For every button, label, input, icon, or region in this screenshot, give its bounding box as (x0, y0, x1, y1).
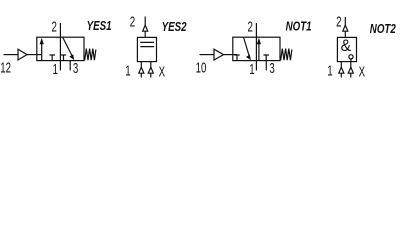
svg-text:NOT2: NOT2 (370, 23, 397, 37)
port label 1 NOT1 (249, 61, 255, 77)
port X stub NOT2 with flow triangle (350, 62, 352, 68)
port label 2 NOT1 (248, 18, 254, 34)
svg-text:X: X (159, 64, 165, 80)
valve NOT1 left-cell flow diagonal 2->3 (244, 38, 250, 56)
port 1 stub YES2 with flow triangle (140, 62, 142, 68)
port 3 stub YES1 (69, 61, 71, 71)
port 1 stub NOT2 with flow triangle (340, 62, 342, 68)
valve NOT1 left-cell blocked port T (234, 55, 239, 61)
svg-text:1: 1 (249, 61, 255, 77)
port label 3 NOT1 (269, 60, 275, 76)
port label X NOT2 (359, 64, 365, 80)
port label 2 YES2 (130, 13, 136, 29)
NOT2 inhibition circle (349, 55, 353, 59)
svg-text:2: 2 (52, 18, 58, 34)
valve NOT1 right-cell flow arrow 1->2 (258, 43, 260, 61)
svg-text:3: 3 (73, 60, 79, 76)
svg-text:2: 2 (130, 13, 136, 29)
spring NOT1 (280, 49, 292, 61)
label YES1 (87, 20, 112, 34)
svg-text:1: 1 (125, 62, 131, 78)
spring YES1 (84, 49, 96, 61)
port 1 stub YES1 (59, 61, 61, 71)
port label 3 YES1 (73, 60, 79, 76)
port 2 stub YES2 with flow triangle (144, 17, 146, 26)
svg-text:2: 2 (248, 18, 254, 34)
port X stub YES2 with flow triangle (150, 62, 152, 68)
svg-text:10: 10 (196, 60, 207, 76)
svg-text:NOT1: NOT1 (286, 20, 312, 34)
port label X YES2 (159, 64, 165, 80)
svg-text:12: 12 (0, 60, 11, 76)
port 2 stub NOT2 with flow triangle (344, 17, 346, 26)
valve NOT1 body (233, 37, 280, 60)
port label 1 YES2 (125, 62, 131, 78)
port 1 stub NOT1 (255, 61, 257, 71)
valve YES1 right-cell blocked port T (61, 55, 66, 61)
amplifier triangle NOT1 input (214, 49, 224, 60)
svg-text:1: 1 (53, 61, 59, 77)
wire pilot line into YES1 (27, 54, 42, 56)
label YES2 (162, 21, 187, 35)
label NOT1 (286, 20, 312, 34)
valve NOT1 right-cell blocked port T (264, 55, 269, 61)
YES2 identity symbol (=) (140, 42, 154, 46)
svg-text:1: 1 (327, 62, 333, 78)
port 3 stub NOT1 (265, 61, 267, 71)
port label 1 NOT2 (327, 62, 333, 78)
svg-text:&: & (341, 37, 352, 55)
svg-text:YES1: YES1 (87, 20, 112, 34)
port 2 stub YES1 (59, 23, 61, 37)
port 2 stub NOT1 (255, 23, 257, 37)
wire pilot line into NOT1 (224, 54, 238, 56)
valve YES1 left-cell blocked port T (50, 55, 55, 61)
logic element NOT2 body (337, 37, 356, 61)
valve YES1 body (37, 37, 84, 60)
port label 2 NOT2 (336, 14, 342, 30)
label NOT2 (370, 23, 397, 37)
svg-text:X: X (359, 64, 365, 80)
label 12 (0, 60, 11, 76)
NOT2 AND symbol (341, 37, 352, 55)
svg-text:3: 3 (269, 60, 275, 76)
wire input line 10 (200, 54, 215, 56)
label 10 (196, 60, 207, 76)
port label 1 YES1 (53, 61, 59, 77)
svg-text:2: 2 (336, 14, 342, 30)
amplifier triangle YES1 input (18, 49, 27, 60)
svg-text:YES2: YES2 (162, 21, 187, 35)
valve YES1 right-cell flow diagonal 2->3 (63, 38, 72, 56)
port label 2 YES1 (52, 18, 58, 34)
wire input line 12 (4, 54, 19, 56)
valve YES1 left-cell flow arrow 1->2 (41, 43, 43, 61)
valve NOT1 divider (255, 37, 257, 60)
logic element YES2 body (137, 37, 156, 61)
valve YES1 divider (59, 37, 61, 60)
